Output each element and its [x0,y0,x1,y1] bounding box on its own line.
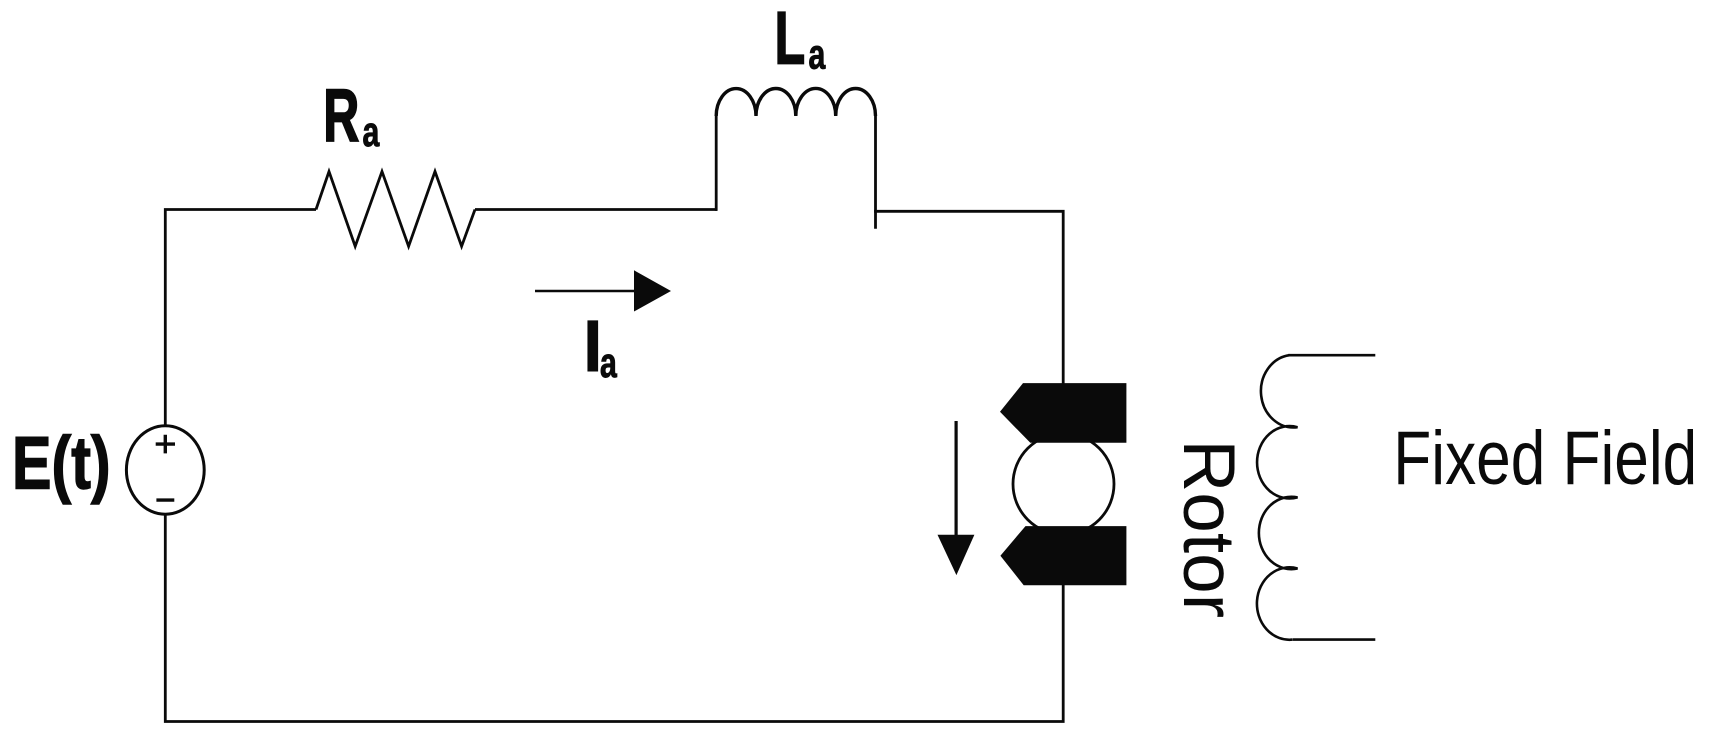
resistor Ra [316,172,475,247]
inductor La [716,88,875,228]
svg-text:Rotor: Rotor [1168,440,1249,619]
svg-text:R: R [323,75,359,157]
svg-text:E(t): E(t) [12,422,111,505]
svg-text:a: a [600,339,617,386]
wire: inductor to top-right corner and down to rotor [874,211,1063,384]
wire: resistor to inductor [475,208,717,211]
rotor bottom brush [1000,526,1126,585]
svg-text:a: a [363,108,380,155]
label Ra [323,75,380,157]
label La [775,0,826,80]
svg-text:Fixed Field: Fixed Field [1393,415,1697,500]
label Ia [583,305,618,388]
voltage source E(t) [126,426,204,514]
wire: rotor to bottom-right corner, bottom wire, up to source [165,514,1063,722]
wire: top-left segment from source to resistor [165,210,316,427]
down arrow [938,421,975,575]
current arrow Ia [535,270,671,311]
svg-text:L: L [775,0,806,80]
rotor top brush [1000,383,1126,443]
field winding (fixed field coil) [1257,355,1375,640]
svg-text:a: a [809,31,826,78]
motor rotor circle [1013,434,1114,535]
